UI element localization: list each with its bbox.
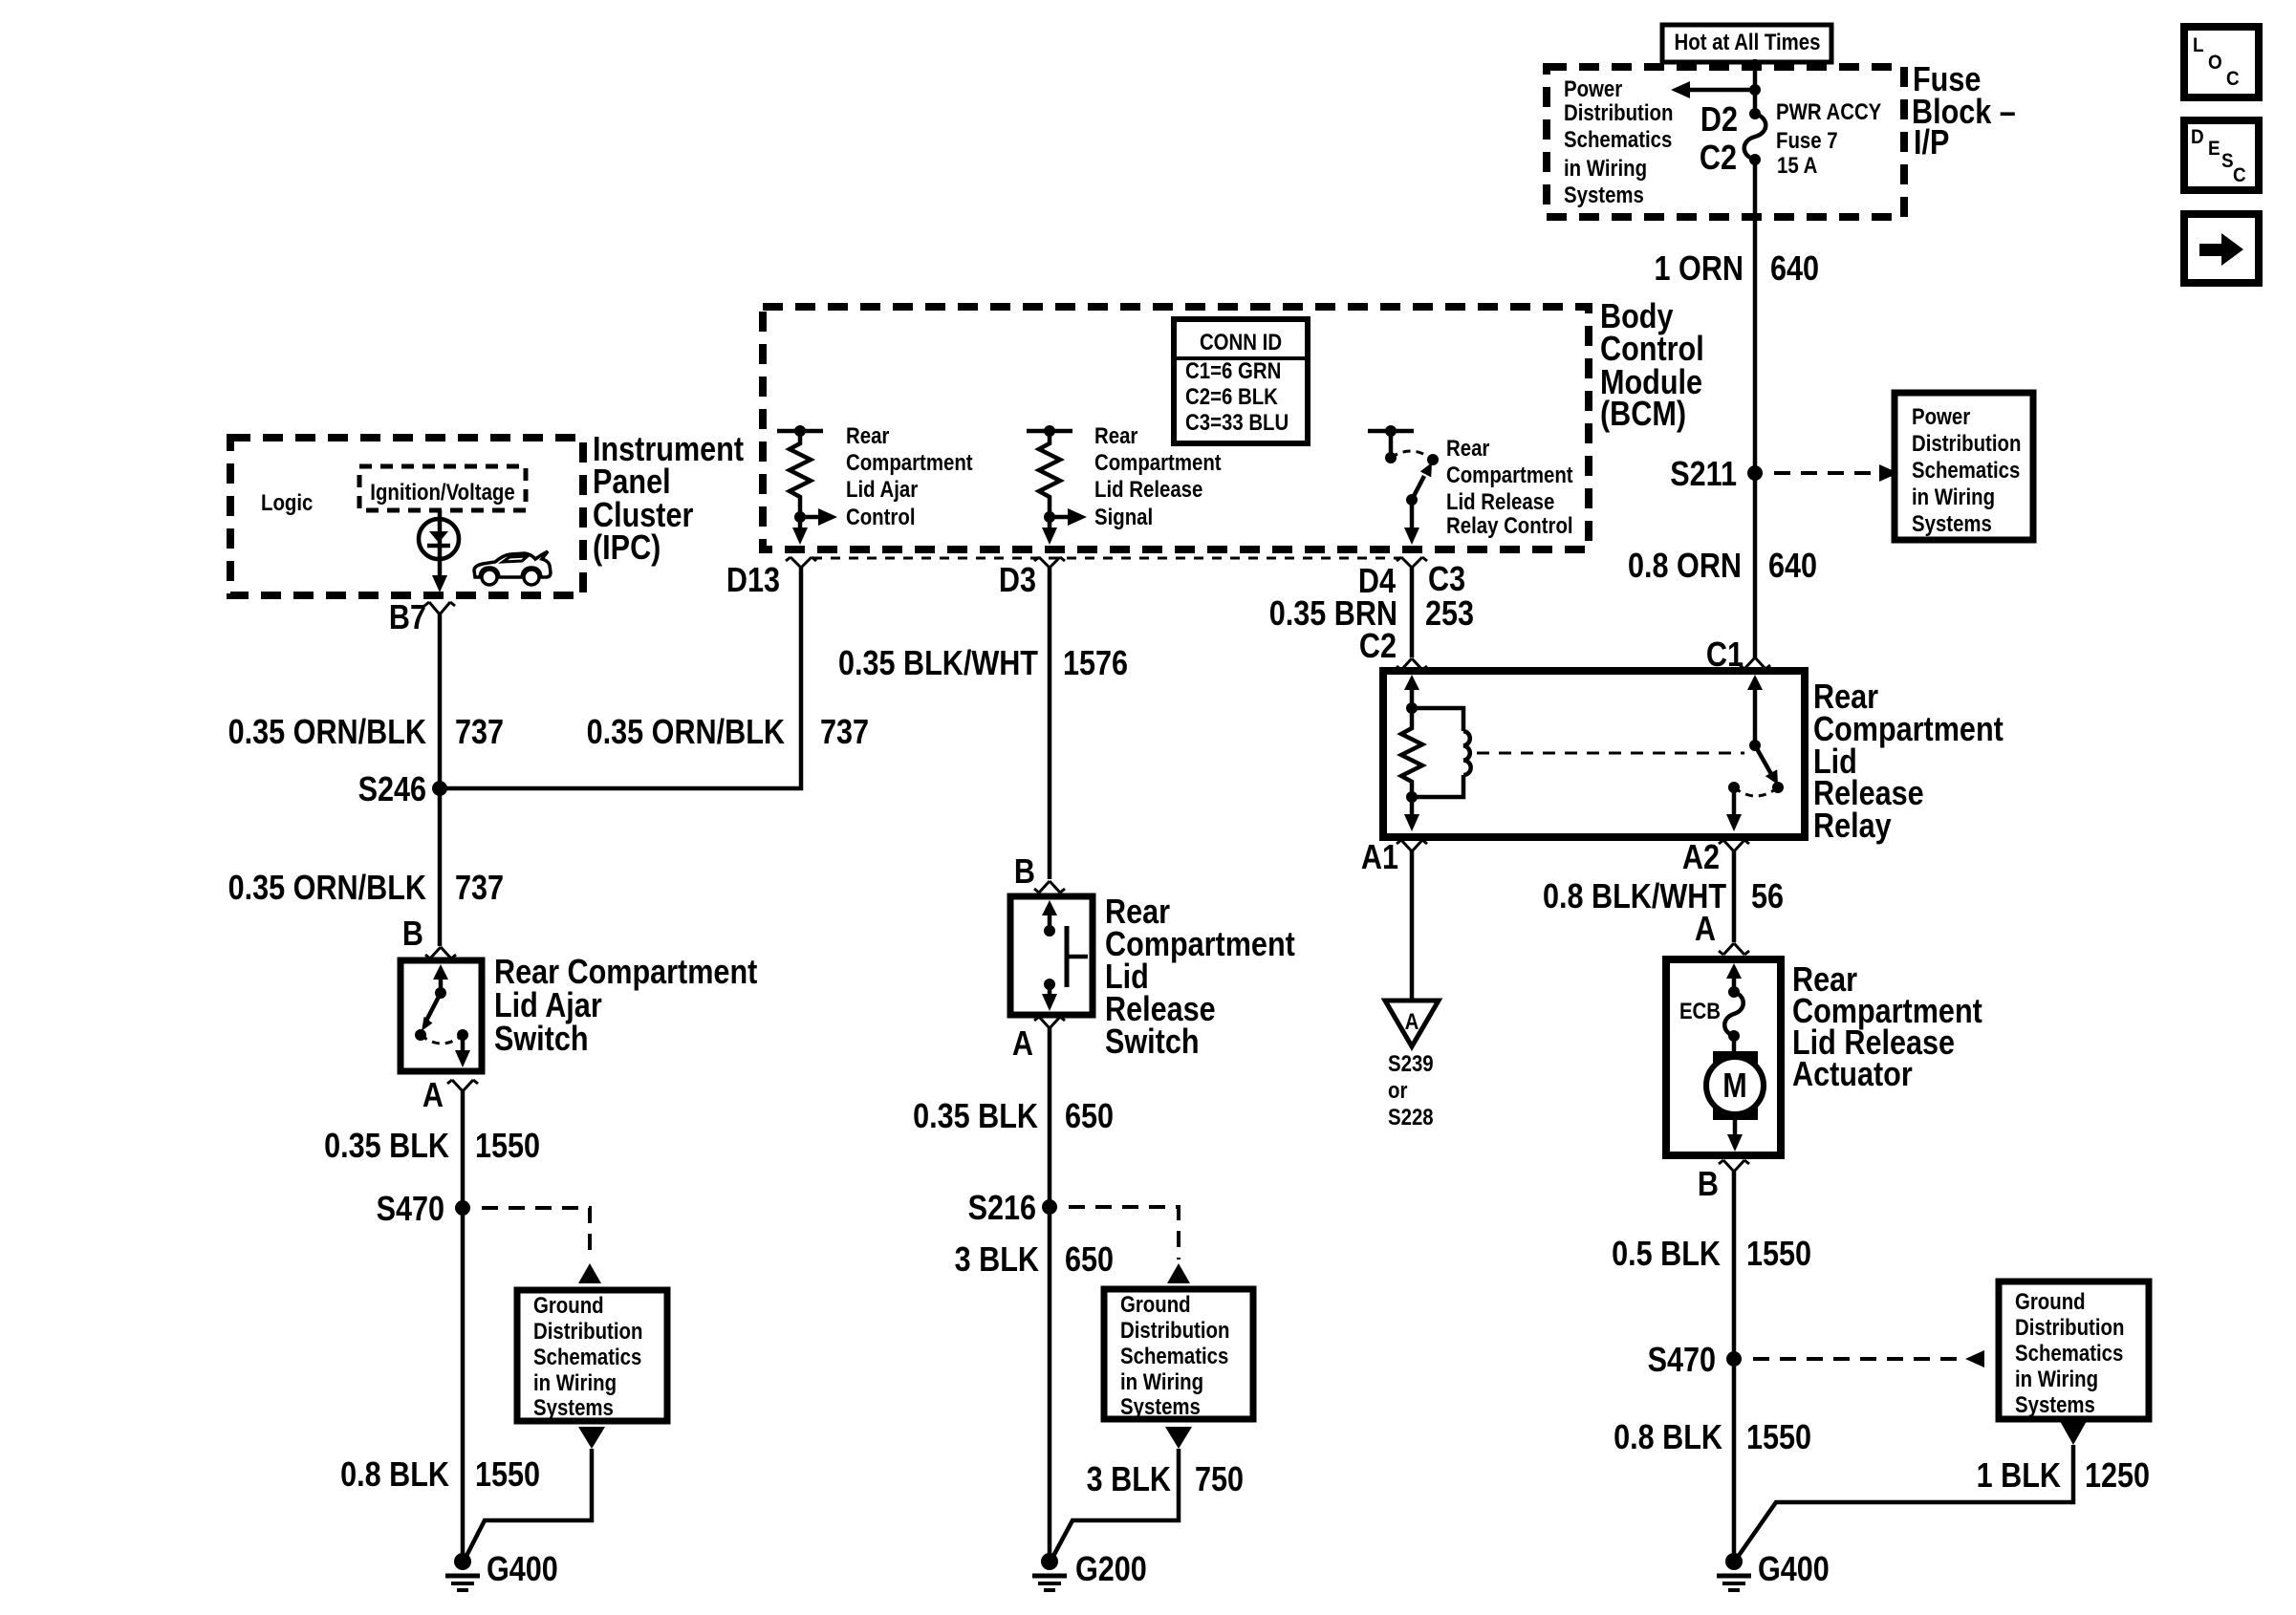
connector A fork (ajar switch): [447, 1080, 478, 1091]
S239/S228 ground reference triangle: [1385, 1001, 1439, 1046]
svg-text:Distribution: Distribution: [533, 1318, 642, 1344]
CONN ID table: [1174, 319, 1308, 443]
svg-text:A: A: [1012, 1025, 1033, 1064]
relay switch: [1726, 675, 1784, 831]
forward arrow page icon: [2184, 214, 2259, 283]
Ground Distribution reference box (middle): [1104, 1289, 1253, 1419]
fuse value labels PWR ACCY / Fuse 7 / 15 A: [1776, 98, 1881, 178]
svg-text:I/P: I/P: [1914, 124, 1949, 162]
svg-text:A2: A2: [1682, 839, 1720, 877]
dashed reference link from S470 left: [482, 1208, 601, 1283]
connector B fork (release switch): [1034, 881, 1065, 893]
svg-text:C2: C2: [1700, 140, 1737, 178]
svg-text:S470: S470: [377, 1191, 444, 1229]
svg-text:0.8 BLK: 0.8 BLK: [340, 1456, 449, 1495]
BCM resistor: Rear Compartment Lid Release Signal: [1027, 425, 1087, 545]
svg-text:0.8 BLK: 0.8 BLK: [1614, 1419, 1722, 1457]
ajar switch contacts: [415, 964, 470, 1067]
connector B7 fork: [424, 602, 455, 614]
BCM switch: Rear Compartment Lid Release Relay Control: [1368, 425, 1439, 545]
svg-text:M: M: [1722, 1067, 1746, 1106]
label Rear Compartment Lid Release Actuator: [1792, 961, 1982, 1094]
svg-text:Panel: Panel: [593, 463, 671, 502]
wire release switch A to G200: [1048, 1028, 1052, 1561]
svg-text:B: B: [402, 915, 423, 954]
BCM label: Rear Compartment Lid Release Relay Control: [1446, 435, 1573, 538]
svg-text:Ground: Ground: [1120, 1291, 1191, 1317]
Rear Compartment Lid Release Actuator box: [1666, 959, 1781, 1155]
ground G400 (left): [445, 1551, 558, 1590]
connector D13 fork: [786, 557, 816, 568]
svg-text:G200: G200: [1075, 1551, 1147, 1589]
wire B7 to S246: [438, 614, 443, 788]
svg-text:1 ORN: 1 ORN: [1655, 250, 1744, 289]
svg-text:B: B: [1698, 1166, 1719, 1204]
label Body Control Module (BCM): [1600, 298, 1704, 434]
svg-text:(BCM): (BCM): [1600, 396, 1686, 434]
svg-text:Rear: Rear: [1094, 422, 1138, 448]
Rear Compartment Lid Release Relay box: [1383, 671, 1805, 837]
wire label 0.35 BLK 1550: [324, 1128, 540, 1166]
wire A2 to actuator, label 0.8 BLK/WHT 56: [1732, 851, 1737, 942]
svg-text:S470: S470: [1648, 1342, 1716, 1380]
Ignition/Voltage dashed box: [359, 466, 526, 510]
wire A1 to S239: [1410, 851, 1415, 1001]
svg-text:D2: D2: [1700, 101, 1738, 140]
svg-text:O: O: [2208, 52, 2222, 74]
svg-text:S246: S246: [358, 771, 426, 809]
svg-text:Fuse 7: Fuse 7: [1776, 127, 1838, 153]
svg-text:or: or: [1388, 1077, 1408, 1103]
svg-text:L: L: [2193, 34, 2204, 56]
Body Control Module dashed box: [763, 307, 1589, 549]
wire label 0.35 BLK 650: [913, 1098, 1114, 1136]
label Instrument Panel Cluster (IPC): [593, 431, 744, 568]
splice S211: [1670, 456, 1763, 494]
svg-text:1250: 1250: [2085, 1457, 2150, 1496]
dashed reference link from S216: [1069, 1207, 1190, 1283]
connector A2 fork: [1719, 840, 1749, 851]
wire ajar switch A to G400: [461, 1089, 466, 1561]
Rear Compartment Lid Ajar Switch box: [401, 960, 482, 1071]
svg-text:B7: B7: [389, 599, 426, 637]
svg-text:Schematics: Schematics: [1912, 457, 2020, 483]
dashed reference link from S211: [1774, 464, 1898, 482]
wire label 0.5 BLK 1550: [1612, 1236, 1811, 1274]
IPC indicator lamp: [419, 510, 459, 592]
svg-text:A: A: [1695, 911, 1716, 949]
svg-text:253: 253: [1425, 595, 1474, 634]
svg-text:1550: 1550: [475, 1456, 540, 1495]
svg-text:Switch: Switch: [494, 1021, 589, 1059]
svg-text:Ground: Ground: [533, 1292, 604, 1318]
wire label 0.35 ORN/BLK 737 (left upper): [228, 714, 504, 752]
svg-text:3 BLK: 3 BLK: [1087, 1461, 1171, 1499]
ground ref triangle and wire to G200, label 3 BLK 750: [1051, 1427, 1244, 1560]
svg-text:1576: 1576: [1063, 645, 1128, 683]
svg-text:D13: D13: [726, 562, 780, 600]
svg-text:Schematics: Schematics: [533, 1344, 641, 1369]
wire D3 to release switch: [1048, 568, 1052, 879]
svg-text:Distribution: Distribution: [2015, 1314, 2124, 1340]
svg-text:Ground: Ground: [2015, 1288, 2086, 1314]
svg-text:in Wiring: in Wiring: [533, 1369, 617, 1395]
svg-text:D: D: [2191, 126, 2204, 148]
svg-text:640: 640: [1770, 250, 1819, 289]
BCM label: Rear Compartment Lid Release Signal: [1094, 422, 1222, 529]
svg-text:G400: G400: [487, 1551, 558, 1589]
svg-text:Rear: Rear: [846, 422, 890, 448]
branch arrow to power distribution note: [1671, 81, 1761, 98]
splice S470 (right): [1648, 1342, 1742, 1380]
svg-text:CONN ID: CONN ID: [1200, 329, 1282, 355]
wire from Hot at All Times into fuse: [1753, 59, 1758, 114]
svg-text:15 A: 15 A: [1777, 152, 1817, 178]
actuator input arrow and ECB: [1679, 963, 1744, 1042]
svg-text:3 BLK: 3 BLK: [955, 1241, 1039, 1280]
ground ref triangle and wire to G400 (left): [465, 1427, 605, 1560]
connector D3 fork: [1034, 557, 1065, 568]
Rear Compartment Lid Release Switch box: [1010, 896, 1093, 1015]
svg-text:Lid Release: Lid Release: [1446, 488, 1554, 514]
connector A1 fork: [1397, 840, 1427, 851]
svg-text:Distribution: Distribution: [1564, 99, 1673, 125]
svg-text:C: C: [2233, 164, 2246, 186]
wire label 1 ORN 640: [1655, 250, 1819, 289]
DESC page icon: [2184, 120, 2259, 190]
ground ref triangle and wire to G400 (right), label 1 BLK 1250: [1736, 1421, 2150, 1560]
BCM connector face (thin dashed): [812, 557, 1400, 560]
svg-text:A1: A1: [1361, 839, 1398, 877]
wire label 0.8 ORN 640: [1628, 548, 1817, 586]
wire fuse to BCM C1 (circuit 640): [1753, 160, 1758, 657]
svg-text:737: 737: [455, 714, 504, 752]
connector D4/C3 fork: [1397, 557, 1427, 568]
svg-text:750: 750: [1195, 1461, 1244, 1499]
svg-text:Systems: Systems: [1912, 510, 1992, 536]
svg-text:Power: Power: [1564, 75, 1623, 101]
Ground Distribution reference box (left): [517, 1290, 667, 1421]
svg-text:S216: S216: [968, 1190, 1036, 1228]
svg-text:Control: Control: [1600, 331, 1704, 369]
Ground Distribution reference box (right): [1999, 1281, 2149, 1419]
svg-text:1550: 1550: [475, 1128, 540, 1166]
release switch contacts: [1042, 900, 1088, 1011]
svg-text:C: C: [2226, 68, 2240, 90]
svg-text:ECB: ECB: [1679, 998, 1721, 1023]
svg-text:Schematics: Schematics: [1564, 126, 1672, 152]
svg-text:1 BLK: 1 BLK: [1977, 1457, 2061, 1496]
svg-text:Logic: Logic: [261, 489, 313, 515]
svg-text:C2=6 BLK: C2=6 BLK: [1185, 383, 1278, 409]
svg-text:Rear Compartment: Rear Compartment: [494, 954, 757, 992]
svg-text:C3: C3: [1428, 561, 1465, 599]
svg-text:S: S: [2221, 150, 2234, 172]
svg-text:Lid Ajar: Lid Ajar: [846, 476, 918, 502]
svg-text:S239: S239: [1388, 1050, 1434, 1076]
wire D4 to relay C2, label 0.35 BRN 253: [1410, 568, 1415, 657]
svg-text:E: E: [2208, 138, 2220, 160]
fuse F7 PWR ACCY 15A: [1744, 108, 1766, 165]
relay coil: [1412, 708, 1471, 797]
label Rear Compartment Lid Release Switch: [1105, 894, 1295, 1062]
connector B fork (ajar switch): [425, 947, 456, 958]
svg-text:0.35 ORN/BLK: 0.35 ORN/BLK: [228, 870, 426, 908]
svg-text:Signal: Signal: [1094, 504, 1153, 529]
connector B fork (actuator): [1719, 1160, 1749, 1172]
svg-text:Rear: Rear: [1446, 435, 1490, 461]
svg-text:S211: S211: [1670, 456, 1737, 494]
svg-text:Systems: Systems: [2015, 1391, 2095, 1417]
svg-text:Relay: Relay: [1813, 807, 1892, 846]
svg-text:Lid Ajar: Lid Ajar: [494, 987, 602, 1025]
svg-text:C2: C2: [1359, 628, 1397, 666]
svg-text:650: 650: [1065, 1098, 1114, 1136]
LOC page icon: [2184, 27, 2259, 97]
svg-text:640: 640: [1768, 548, 1817, 586]
svg-text:0.35 ORN/BLK: 0.35 ORN/BLK: [228, 714, 426, 752]
BCM label: Rear Compartment Lid Ajar Control: [846, 422, 973, 529]
svg-text:56: 56: [1751, 878, 1784, 916]
connector C2 fork (relay): [1397, 658, 1427, 670]
svg-text:0.5 BLK: 0.5 BLK: [1612, 1236, 1721, 1274]
splice S246: [358, 771, 447, 809]
ground G200: [1032, 1551, 1147, 1590]
svg-text:650: 650: [1065, 1241, 1114, 1280]
label Fuse Block - I/P: [1912, 61, 2016, 162]
wire label 0.35 BLK/WHT 1576: [838, 645, 1128, 683]
svg-text:in Wiring: in Wiring: [1912, 484, 1995, 509]
wire label 0.35 ORN/BLK 737 (branch): [587, 714, 869, 752]
svg-text:Systems: Systems: [1120, 1393, 1201, 1419]
svg-text:1550: 1550: [1746, 1419, 1811, 1457]
svg-text:0.35 BLK: 0.35 BLK: [913, 1098, 1038, 1136]
svg-text:Switch: Switch: [1105, 1023, 1200, 1062]
svg-text:0.35 BLK: 0.35 BLK: [324, 1128, 449, 1166]
connector A fork (actuator): [1719, 943, 1749, 955]
label S239 or S228: [1388, 1050, 1434, 1130]
svg-text:1550: 1550: [1746, 1236, 1811, 1274]
svg-text:C1=6 GRN: C1=6 GRN: [1185, 357, 1281, 383]
splice S470 (left): [377, 1191, 470, 1229]
actuator motor M: [1706, 1036, 1764, 1152]
svg-text:PWR ACCY: PWR ACCY: [1776, 98, 1881, 124]
svg-text:A: A: [1405, 1008, 1419, 1034]
svg-text:Compartment: Compartment: [1094, 449, 1222, 475]
relay internal dashed actuation line: [1477, 752, 1744, 755]
wire label 0.8 BLK 1550 (left): [340, 1456, 540, 1495]
svg-text:737: 737: [455, 870, 504, 908]
svg-text:Schematics: Schematics: [1120, 1343, 1228, 1368]
svg-text:Ignition/Voltage: Ignition/Voltage: [370, 479, 514, 505]
svg-text:G400: G400: [1758, 1551, 1830, 1589]
relay coil branch A1: [1401, 675, 1422, 831]
svg-text:C3=33 BLU: C3=33 BLU: [1185, 409, 1289, 435]
svg-text:D3: D3: [999, 562, 1036, 600]
svg-text:Systems: Systems: [1564, 182, 1644, 207]
Hot at All Times box: [1662, 25, 1831, 62]
svg-text:Lid Release: Lid Release: [1094, 476, 1202, 502]
svg-text:in Wiring: in Wiring: [1120, 1368, 1203, 1394]
svg-text:Power: Power: [1912, 403, 1971, 429]
svg-text:S228: S228: [1388, 1104, 1434, 1130]
wire label 0.35 ORN/BLK 737 (left lower): [228, 870, 504, 908]
BCM resistor: Rear Compartment Lid Ajar Control: [777, 425, 837, 545]
Fuse block inner note: Power Distribution Schematics in Wiring Systems: [1564, 75, 1673, 207]
wire actuator B to G400: [1732, 1172, 1737, 1561]
svg-text:Relay Control: Relay Control: [1446, 512, 1573, 538]
svg-text:Distribution: Distribution: [1912, 430, 2021, 456]
svg-text:0.8 ORN: 0.8 ORN: [1628, 548, 1742, 586]
connector C1 fork: [1740, 657, 1770, 669]
ground G400 (right): [1717, 1551, 1830, 1590]
car icon with open trunk: [474, 551, 551, 585]
svg-text:Systems: Systems: [533, 1394, 614, 1420]
Instrument Panel Cluster dashed box: [230, 438, 583, 595]
splice S216: [968, 1190, 1057, 1228]
branch wire S246 to D13: [440, 568, 801, 788]
connector A fork (release switch): [1034, 1017, 1065, 1028]
svg-text:Hot at All Times: Hot at All Times: [1675, 29, 1821, 54]
svg-text:in Wiring: in Wiring: [2015, 1366, 2098, 1391]
wire label 3 BLK 650: [955, 1241, 1114, 1280]
svg-text:0.35 BLK/WHT: 0.35 BLK/WHT: [838, 645, 1039, 683]
svg-text:0.35 ORN/BLK: 0.35 ORN/BLK: [587, 714, 785, 752]
svg-text:in Wiring: in Wiring: [1564, 155, 1647, 181]
svg-text:A: A: [422, 1077, 444, 1115]
svg-text:Control: Control: [846, 504, 916, 529]
svg-text:737: 737: [820, 714, 869, 752]
wire S246 to ajar switch: [438, 788, 443, 946]
svg-text:B: B: [1014, 853, 1035, 892]
svg-text:Compartment: Compartment: [846, 449, 973, 475]
svg-text:Compartment: Compartment: [1446, 462, 1573, 487]
svg-text:Actuator: Actuator: [1792, 1056, 1913, 1094]
label Rear Compartment Lid Ajar Switch: [494, 954, 757, 1059]
svg-text:Schematics: Schematics: [2015, 1340, 2123, 1366]
svg-text:Distribution: Distribution: [1120, 1317, 1229, 1343]
wire label 0.8 BLK 1550 (right): [1614, 1419, 1811, 1457]
dashed reference link from S470 right: [1753, 1350, 1984, 1367]
Power Distribution Schematics reference box (right): [1895, 393, 2033, 540]
svg-text:(IPC): (IPC): [593, 529, 661, 568]
Fuse Block - I/P dashed box: [1547, 67, 1904, 217]
label Rear Compartment Lid Release Relay: [1813, 678, 2004, 846]
